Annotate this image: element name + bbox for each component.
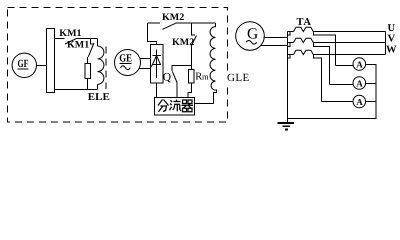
wire G neutral stub [261, 45, 288, 47]
wire to coil corner [77, 38, 98, 40]
switch Q branch wire [172, 66, 192, 72]
wire contact to resistor [87, 57, 89, 64]
wire A2 to common [366, 83, 377, 85]
svg-text:ELE: ELE [88, 92, 110, 103]
transformer TA CT1 primary bumps [294, 27, 314, 31]
glyph 分 [158, 100, 169, 112]
wire phase V before CT [288, 42, 294, 44]
ammeter A2 [353, 77, 366, 90]
wire coil bottom [97, 84, 99, 89]
CT3 secondary loop [288, 55, 322, 102]
wire neutral to ground [287, 32, 289, 123]
svg-text:GLE: GLE [227, 72, 250, 84]
wire top from bar [55, 38, 65, 40]
switch KM2 blade [163, 23, 176, 29]
node UVW terminal bar [385, 32, 387, 55]
svg-text:KM1: KM1 [59, 28, 81, 39]
dashed enclosure border [8, 8, 228, 123]
contact KM2 blade [191, 36, 197, 47]
wire to ammeter A1 [336, 65, 354, 67]
wire resistor to bottom wire [87, 79, 89, 90]
wire A3 to common [366, 101, 377, 103]
wire phase W after CT [314, 54, 386, 56]
svg-text:G: G [247, 26, 258, 43]
wire KM2 top left [148, 22, 161, 24]
wire bottom from bar [55, 89, 98, 91]
CT2 secondary loop [288, 43, 330, 85]
wire to ammeter A2 [330, 84, 354, 86]
ground [278, 123, 294, 130]
label 分流器 (hand-drawn glyphs) [158, 100, 193, 112]
wire GE to rectifier lower [140, 68, 151, 70]
wire phase U before CT [288, 31, 294, 33]
svg-text:Q: Q [163, 72, 172, 84]
label GLE [224, 71, 250, 84]
G tilde [246, 41, 257, 45]
svg-text:U: U [388, 23, 396, 34]
glyph 流 [170, 100, 182, 112]
GE tilde [121, 66, 131, 70]
wire top feed to rectifier [148, 23, 157, 45]
wire GF to commutator bar [37, 64, 47, 66]
dashed divider line [105, 47, 107, 90]
wire A1 to common [366, 64, 377, 66]
svg-text:A: A [356, 79, 363, 89]
svg-text:m: m [202, 72, 209, 82]
inductor ELE field winding [98, 46, 104, 84]
thyristor rectifier box [151, 45, 164, 84]
generator GF [12, 53, 36, 77]
svg-text:GE: GE [119, 52, 132, 64]
transformer TA CT2 primary bumps [294, 38, 314, 42]
contact KM2 branch upper wire [192, 23, 196, 35]
GE underline [120, 63, 132, 65]
exciter GE [115, 50, 141, 76]
wire Q to shunt [176, 83, 178, 98]
transformer TA CT3 primary bumps [294, 50, 314, 54]
inductor GLE generator field [210, 23, 216, 90]
svg-text:TA: TA [297, 17, 312, 28]
wire contact to Rm [191, 47, 193, 70]
svg-text:KM2: KM2 [162, 12, 184, 23]
switch Q blade [172, 71, 177, 82]
wire shunt to GLE coil [194, 90, 217, 104]
shunt box [155, 98, 195, 116]
wire phase V after CT [314, 42, 386, 44]
commutator bar [47, 29, 55, 93]
wire Rm to shunt [188, 83, 192, 98]
switch KM1 blade [65, 39, 77, 45]
ammeter A1 [353, 58, 366, 71]
GF underline [18, 68, 29, 70]
thyristor symbol [153, 50, 162, 79]
svg-text:GF: GF [18, 58, 29, 70]
ammeter A3 [353, 95, 366, 108]
wire G phase stub [264, 37, 288, 39]
wire coil top riser [97, 39, 99, 47]
svg-text:W: W [386, 45, 397, 56]
wire KM2 top right [176, 22, 216, 24]
wire GE to rectifier upper [140, 58, 151, 60]
CT1 secondary loop [288, 32, 336, 66]
svg-text:KM1: KM1 [67, 40, 89, 51]
svg-text:A: A [356, 97, 363, 107]
wire phase U after CT [314, 31, 386, 33]
contact KM1 branch upper wire [91, 39, 94, 45]
glyph 器 [182, 100, 194, 112]
wire ammeter common return [288, 65, 376, 119]
wire rectifier bottom to shunt [156, 83, 158, 98]
wire phase W before CT [288, 54, 294, 56]
resistor (field discharge) [85, 64, 91, 79]
contact KM1 blade [88, 43, 94, 57]
svg-text:A: A [356, 60, 363, 70]
wire to ammeter A3 [322, 101, 354, 103]
svg-text:V: V [388, 34, 396, 45]
generator G [236, 22, 265, 51]
resistor Rm [189, 70, 195, 84]
